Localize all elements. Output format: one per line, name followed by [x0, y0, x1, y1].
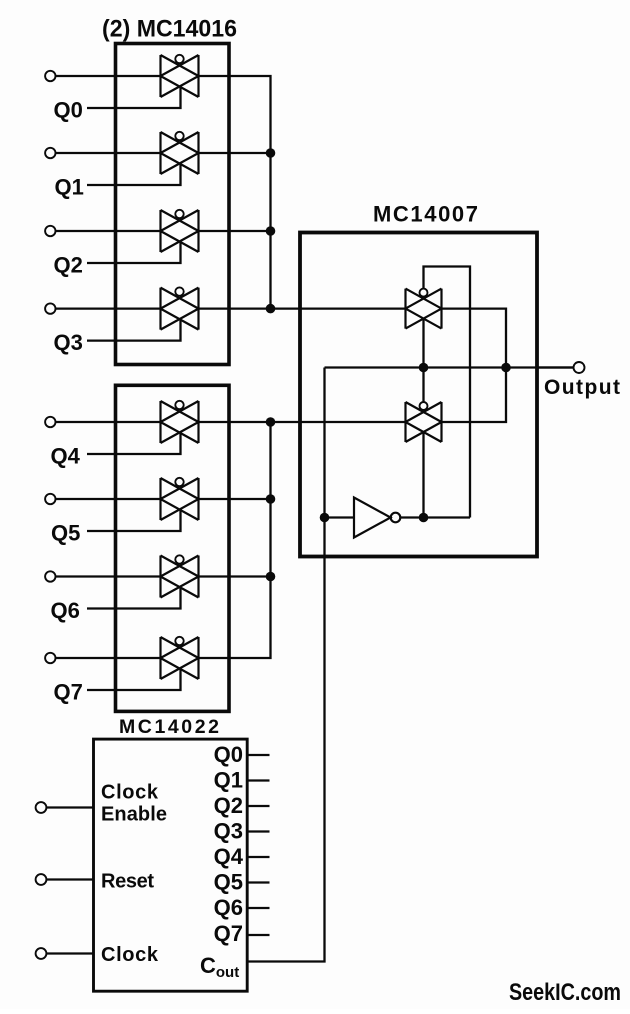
- svg-text:Q5: Q5: [214, 870, 243, 895]
- svg-text:Q7: Q7: [54, 680, 83, 705]
- svg-text:Q2: Q2: [214, 793, 243, 818]
- svg-text:Clock: Clock: [101, 944, 159, 966]
- svg-text:Q0: Q0: [214, 742, 243, 767]
- svg-text:Q3: Q3: [54, 330, 83, 355]
- svg-text:Output: Output: [544, 376, 620, 399]
- svg-text:Q1: Q1: [55, 175, 84, 200]
- svg-text:Q1: Q1: [214, 768, 243, 793]
- svg-text:MC14007: MC14007: [373, 201, 478, 226]
- svg-text:Q6: Q6: [214, 895, 243, 920]
- svg-text:Enable: Enable: [101, 804, 167, 826]
- svg-text:Q7: Q7: [214, 921, 243, 946]
- svg-text:(2) MC14016: (2) MC14016: [102, 16, 237, 43]
- svg-text:Q4: Q4: [214, 844, 244, 869]
- svg-text:SeekIC.com: SeekIC.com: [509, 979, 621, 1006]
- svg-text:Q6: Q6: [51, 598, 80, 623]
- svg-text:Q4: Q4: [51, 444, 81, 469]
- svg-text:Q2: Q2: [54, 253, 83, 278]
- svg-text:Clock: Clock: [101, 782, 159, 804]
- svg-text:MC14022: MC14022: [119, 716, 219, 738]
- svg-text:Reset: Reset: [101, 871, 154, 893]
- svg-text:Q0: Q0: [54, 98, 83, 123]
- svg-text:Q3: Q3: [214, 819, 243, 844]
- svg-text:Q5: Q5: [51, 521, 80, 546]
